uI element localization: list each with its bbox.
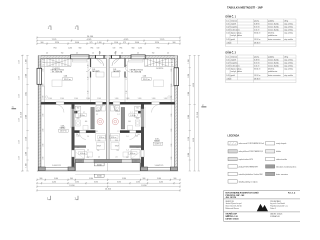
right dim line C bbox=[198, 55, 200, 171]
bottom dim line 1 bbox=[36, 179, 181, 181]
table DŮM Č. 2 grid bbox=[226, 55, 297, 83]
svg-text:750: 750 bbox=[97, 150, 100, 152]
left dim line B bbox=[26, 55, 28, 171]
svg-text:1.500: 1.500 bbox=[115, 98, 119, 100]
dim chain above wall unit2 bbox=[110, 99, 175, 101]
table DŮM Č. 1 grid bbox=[226, 19, 297, 47]
svg-text:1.4: 1.4 bbox=[127, 150, 129, 152]
svg-text:koupelna: koupelna bbox=[231, 62, 238, 64]
svg-text:1.10: 1.10 bbox=[126, 90, 128, 93]
left wall bbox=[38, 56, 41, 171]
svg-text:2.60: 2.60 bbox=[43, 95, 45, 98]
svg-text:1.250: 1.250 bbox=[138, 48, 142, 50]
svg-text:TECH: TECH bbox=[97, 146, 101, 148]
svg-text:podlaha: podlaha bbox=[268, 56, 274, 58]
svg-text:35.61 m²: 35.61 m² bbox=[64, 78, 71, 81]
svg-text:zádveří: zádveří bbox=[231, 23, 237, 25]
bottom info right bbox=[270, 213, 282, 218]
svg-text:6.16 m²: 6.16 m² bbox=[254, 25, 260, 28]
bottom dim line 2 bbox=[36, 182, 181, 184]
svg-text:DŮM Č. 1: DŮM Č. 1 bbox=[226, 16, 237, 19]
svg-text:INVESTOR:: INVESTOR: bbox=[226, 201, 235, 203]
section marker top 2 bbox=[76, 26, 78, 30]
section marker bottom 1 bbox=[49, 196, 51, 200]
svg-text:koupelna: koupelna bbox=[231, 26, 238, 28]
svg-text:O/Z: O/Z bbox=[113, 48, 116, 50]
svg-text:Ulice číslo 123, 250 00: Ulice číslo 123, 250 00 bbox=[226, 206, 242, 208]
svg-text:keram. dlažba: keram. dlažba bbox=[268, 22, 279, 25]
svg-text:17x182/250: 17x182/250 bbox=[156, 68, 163, 70]
svg-text:podlahovina: podlahovina bbox=[268, 35, 277, 37]
svg-text:stěny: stěny bbox=[284, 55, 288, 58]
bath fixtures unit2 bbox=[115, 106, 120, 112]
svg-text:1.10: 1.10 bbox=[88, 76, 90, 79]
svg-text:2.600: 2.600 bbox=[26, 115, 28, 119]
entry arrow unit1 bbox=[99, 51, 100, 54]
svg-text:700: 700 bbox=[76, 134, 79, 136]
svg-text:1.500: 1.500 bbox=[126, 98, 130, 100]
legend R2 bbox=[266, 150, 275, 153]
svg-text:13.97 m²: 13.97 m² bbox=[254, 38, 261, 41]
svg-text:P06: P06 bbox=[98, 140, 101, 142]
svg-text:1.500: 1.500 bbox=[48, 98, 52, 100]
svg-text:900: 900 bbox=[143, 178, 146, 180]
svg-text:4.925: 4.925 bbox=[87, 39, 92, 41]
svg-text:900: 900 bbox=[41, 42, 44, 44]
svg-text:1.500: 1.500 bbox=[60, 98, 64, 100]
svg-text:TECH: TECH bbox=[115, 146, 119, 148]
svg-text:6.48 m²: 6.48 m² bbox=[254, 22, 260, 25]
right dim line B bbox=[193, 55, 195, 171]
legend R1 bbox=[266, 142, 275, 145]
svg-text:750: 750 bbox=[152, 53, 155, 55]
svg-text:1.03: 1.03 bbox=[115, 111, 118, 113]
right wall bbox=[175, 56, 178, 171]
svg-text:900: 900 bbox=[77, 147, 80, 149]
svg-text:O/Z: O/Z bbox=[97, 48, 100, 50]
svg-text:+ KK, JÍDELNA: + KK, JÍDELNA bbox=[51, 71, 63, 74]
window left wall bbox=[37, 68, 42, 84]
svg-text:900: 900 bbox=[174, 178, 177, 180]
svg-text:35.61 m²: 35.61 m² bbox=[254, 31, 261, 34]
interior dim chains unit1 bbox=[43, 59, 45, 103]
svg-text:1.2: 1.2 bbox=[118, 114, 120, 116]
svg-text:750: 750 bbox=[116, 150, 119, 152]
top dim line 2 bbox=[36, 39, 181, 41]
svg-text:1.02: 1.02 bbox=[135, 111, 138, 113]
svg-text:váp. omítka: váp. omítka bbox=[284, 28, 293, 31]
logo bbox=[257, 204, 268, 211]
legend L3 bbox=[228, 157, 237, 160]
svg-text:1.03: 1.03 bbox=[97, 111, 100, 113]
svg-text:750: 750 bbox=[61, 53, 64, 55]
svg-text:technická m.: technická m. bbox=[231, 28, 241, 31]
svg-text:2.025: 2.025 bbox=[26, 92, 28, 96]
svg-text:zdivo příčkové POROTHERM 11,5: zdivo příčkové POROTHERM 11,5 bbox=[239, 151, 264, 153]
stair unit1 bbox=[42, 59, 72, 67]
bath walls unit1 bbox=[91, 107, 95, 129]
svg-text:1.250: 1.250 bbox=[188, 59, 190, 63]
dim chain above wall unit1 bbox=[42, 99, 107, 101]
svg-text:2.1: 2.1 bbox=[118, 131, 120, 133]
svg-text:13.97 m²: 13.97 m² bbox=[60, 130, 67, 133]
bottom dim line 4 bbox=[36, 189, 181, 191]
entry door opening unit1 bbox=[96, 55, 104, 58]
svg-text:4.250: 4.250 bbox=[159, 182, 163, 184]
svg-text:celkem: celkem bbox=[226, 78, 232, 80]
svg-text:3.575: 3.575 bbox=[117, 182, 121, 184]
svg-text:1.250: 1.250 bbox=[19, 140, 21, 144]
svg-text:váp. omítka: váp. omítka bbox=[284, 22, 293, 25]
svg-text:1.10: 1.10 bbox=[88, 90, 90, 93]
svg-text:1.750: 1.750 bbox=[188, 137, 190, 141]
svg-text:1.500: 1.500 bbox=[74, 98, 78, 100]
svg-text:2.5: 2.5 bbox=[43, 65, 45, 67]
closet vestibule unit1 bbox=[96, 72, 104, 77]
svg-text:P07: P07 bbox=[126, 157, 129, 159]
svg-text:5.000: 5.000 bbox=[54, 178, 58, 180]
svg-text:1.100: 1.100 bbox=[97, 42, 101, 44]
svg-text:900: 900 bbox=[79, 48, 82, 50]
svg-text:48.36 m²: 48.36 m² bbox=[254, 77, 261, 80]
bottom info left bbox=[226, 213, 239, 221]
svg-text:beton. mazanina: beton. mazanina bbox=[268, 74, 281, 77]
svg-text:LEGENDA: LEGENDA bbox=[228, 134, 240, 137]
svg-text:1.780: 1.780 bbox=[188, 74, 190, 78]
svg-text:2.5: 2.5 bbox=[137, 53, 139, 55]
svg-text:1.02: 1.02 bbox=[226, 62, 229, 64]
svg-text:1.0: 1.0 bbox=[121, 53, 123, 55]
svg-text:900: 900 bbox=[132, 48, 135, 50]
bath walls unit2 bbox=[121, 107, 125, 129]
svg-text:váp. omítka: váp. omítka bbox=[284, 74, 293, 77]
svg-text:2.60: 2.60 bbox=[171, 113, 173, 116]
svg-text:č.m.: č.m. bbox=[226, 20, 230, 22]
svg-text:plocha: plocha bbox=[254, 20, 259, 22]
svg-text:2.0: 2.0 bbox=[99, 53, 101, 55]
svg-text:4.950: 4.950 bbox=[193, 83, 195, 87]
svg-text:1.03: 1.03 bbox=[226, 29, 229, 31]
center party wall bbox=[106, 56, 109, 164]
svg-text:1.05: 1.05 bbox=[226, 75, 229, 77]
svg-text:kuchyň, jídelna: kuchyň, jídelna bbox=[231, 71, 242, 73]
svg-text:1.01: 1.01 bbox=[226, 23, 229, 25]
svg-text:stěny: stěny bbox=[284, 19, 288, 22]
svg-text:2.575: 2.575 bbox=[75, 182, 79, 184]
svg-text:13.97 m²: 13.97 m² bbox=[154, 143, 161, 146]
svg-text:1.500: 1.500 bbox=[164, 98, 168, 100]
interior dim chains unit2 bbox=[170, 59, 172, 103]
legend L5 bbox=[228, 172, 237, 175]
title block frame bbox=[224, 191, 300, 222]
bottom dim line 3 bbox=[36, 185, 181, 187]
svg-text:1.05: 1.05 bbox=[226, 39, 229, 41]
svg-text:24.100: 24.100 bbox=[105, 189, 111, 191]
boxed dim labels bbox=[94, 163, 104, 166]
legend L6 bbox=[228, 180, 237, 183]
svg-text:beton. mazanina: beton. mazanina bbox=[268, 38, 281, 41]
svg-text:900: 900 bbox=[40, 178, 43, 180]
svg-text:1.04: 1.04 bbox=[226, 68, 229, 70]
svg-text:900: 900 bbox=[70, 178, 73, 180]
bottom wall garage unit1 bbox=[38, 167, 45, 171]
svg-text:1.200: 1.200 bbox=[26, 152, 28, 156]
svg-text:2.60: 2.60 bbox=[171, 128, 173, 131]
svg-text:celkem: celkem bbox=[226, 42, 232, 44]
svg-text:48.36 m²: 48.36 m² bbox=[254, 41, 261, 44]
svg-text:2.60: 2.60 bbox=[43, 113, 45, 116]
svg-text:místnost: místnost bbox=[231, 19, 238, 22]
svg-text:2.575: 2.575 bbox=[136, 182, 140, 184]
svg-text:24.100: 24.100 bbox=[87, 36, 94, 38]
garage side wall unit1 bbox=[72, 105, 75, 167]
corner blocks bbox=[38, 56, 41, 59]
svg-text:váp. omítka: váp. omítka bbox=[284, 25, 293, 28]
entry door opening unit2 bbox=[112, 55, 120, 58]
svg-text:2.600: 2.600 bbox=[188, 115, 190, 119]
entry arrow unit2 bbox=[115, 51, 116, 54]
door swing unit2 bbox=[112, 59, 119, 66]
svg-text:2.0: 2.0 bbox=[98, 157, 100, 159]
svg-text:4.250: 4.250 bbox=[52, 182, 56, 184]
kitchen line unit2 bbox=[171, 86, 175, 102]
svg-text:1.02: 1.02 bbox=[226, 26, 229, 28]
svg-text:dlažba: dlažba bbox=[276, 151, 281, 153]
svg-text:Ing. arch. Jan Novák: Ing. arch. Jan Novák bbox=[270, 203, 285, 205]
svg-text:1.0: 1.0 bbox=[87, 136, 89, 138]
legend R4 bbox=[266, 165, 275, 168]
svg-text:P05: P05 bbox=[77, 118, 80, 120]
svg-text:nosný sloupek: nosný sloupek bbox=[276, 143, 286, 145]
svg-text:1.10: 1.10 bbox=[126, 64, 128, 67]
svg-text:zádveří: zádveří bbox=[231, 59, 237, 61]
wall living/back unit2 bbox=[109, 102, 174, 105]
svg-text:2.60: 2.60 bbox=[43, 68, 45, 71]
svg-text:2.60: 2.60 bbox=[43, 143, 45, 146]
top dim line 1 bbox=[36, 36, 181, 38]
right dim line A bbox=[189, 55, 191, 171]
svg-text:6.48 m²: 6.48 m² bbox=[254, 58, 260, 61]
svg-text:2.60: 2.60 bbox=[171, 95, 173, 98]
svg-text:900: 900 bbox=[173, 42, 176, 44]
legend R5 bbox=[266, 172, 275, 175]
svg-text:4.925: 4.925 bbox=[124, 39, 129, 41]
top wall hatch bbox=[40, 56, 177, 59]
svg-text:DATUM: 10/2021: DATUM: 10/2021 bbox=[226, 218, 239, 221]
svg-text:místnost: místnost bbox=[231, 55, 238, 58]
svg-text:2.0: 2.0 bbox=[46, 53, 48, 55]
svg-text:1.06: 1.06 bbox=[77, 136, 80, 138]
svg-text:podlahovina: podlahovina bbox=[268, 71, 277, 73]
svg-text:13.97 m²: 13.97 m² bbox=[254, 74, 261, 77]
svg-text:R.1.1.b: R.1.1.b bbox=[288, 193, 296, 195]
section marker bottom 2 bbox=[76, 196, 78, 200]
svg-text:váp. omítka: váp. omítka bbox=[284, 61, 293, 64]
svg-text:900: 900 bbox=[136, 147, 139, 149]
svg-text:1.0: 1.0 bbox=[92, 53, 94, 55]
svg-text:2.1: 2.1 bbox=[96, 131, 98, 133]
section marker top 1 bbox=[49, 26, 51, 30]
svg-text:1.03: 1.03 bbox=[226, 65, 229, 67]
svg-text:2.11 m²: 2.11 m² bbox=[254, 64, 260, 67]
svg-text:1.250: 1.250 bbox=[19, 118, 21, 122]
projektant block bbox=[270, 200, 288, 210]
svg-text:váp. omítka: váp. omítka bbox=[284, 31, 293, 34]
svg-text:1.500: 1.500 bbox=[97, 98, 101, 100]
svg-text:7.125: 7.125 bbox=[160, 39, 165, 41]
legend L1 bbox=[228, 142, 237, 145]
svg-text:keram. dlažba: keram. dlažba bbox=[268, 64, 279, 67]
vestibule partition unit1 bbox=[90, 59, 91, 68]
svg-text:1.600: 1.600 bbox=[26, 74, 28, 78]
svg-text:900: 900 bbox=[171, 62, 174, 64]
top wall bbox=[38, 56, 177, 59]
svg-text:2.11 m²: 2.11 m² bbox=[254, 28, 260, 31]
svg-text:2.0: 2.0 bbox=[167, 53, 169, 55]
svg-text:keram. dlažba: keram. dlažba bbox=[268, 58, 279, 61]
svg-text:3.250: 3.250 bbox=[155, 42, 159, 44]
svg-text:5.000/2.125: 5.000/2.125 bbox=[155, 165, 164, 167]
room area boxes unit1 bbox=[78, 114, 86, 117]
svg-text:P01: P01 bbox=[91, 48, 94, 50]
svg-text:1.100: 1.100 bbox=[26, 163, 28, 167]
svg-text:1.500: 1.500 bbox=[152, 98, 156, 100]
svg-text:překlad POROTHERM KP7: překlad POROTHERM KP7 bbox=[239, 166, 259, 168]
middle south wall recessed bbox=[75, 159, 140, 162]
vestibule partition unit2 bbox=[124, 59, 125, 68]
svg-text:JUL 19/178: JUL 19/178 bbox=[226, 197, 237, 199]
svg-text:6.16 m²: 6.16 m² bbox=[254, 61, 260, 64]
svg-text:5.000/2.125: 5.000/2.125 bbox=[52, 165, 61, 167]
svg-text:zdivo nosné POROTHERM 30 Profi: zdivo nosné POROTHERM 30 Profi bbox=[239, 143, 265, 145]
svg-text:váp. omítka: váp. omítka bbox=[284, 58, 293, 61]
svg-text:5.300: 5.300 bbox=[89, 178, 93, 180]
svg-text:3.000: 3.000 bbox=[75, 42, 79, 44]
svg-text:1.900: 1.900 bbox=[188, 92, 190, 96]
svg-text:2.0: 2.0 bbox=[116, 157, 118, 159]
legend L2 bbox=[228, 150, 237, 153]
room area boxes unit2 bbox=[129, 114, 137, 117]
svg-text:váp. omítka: váp. omítka bbox=[284, 64, 293, 67]
svg-text:1.0: 1.0 bbox=[127, 136, 129, 138]
kitchen counter unit1 bbox=[73, 59, 88, 62]
svg-text:ZÁDVEŘÍ: ZÁDVEŘÍ bbox=[113, 70, 121, 73]
svg-text:keram. dlažba: keram. dlažba bbox=[268, 25, 279, 28]
svg-text:700: 700 bbox=[137, 134, 140, 136]
svg-text:1.300: 1.300 bbox=[26, 59, 28, 63]
svg-text:keram. dlažba: keram. dlažba bbox=[268, 28, 279, 31]
svg-text:garáž: garáž bbox=[231, 74, 235, 77]
svg-text:1.250: 1.250 bbox=[19, 94, 21, 98]
svg-text:1.500: 1.500 bbox=[86, 98, 90, 100]
svg-text:váp. omítka: váp. omítka bbox=[284, 67, 293, 70]
kitchen counter unit2 bbox=[129, 59, 144, 62]
svg-text:2.60: 2.60 bbox=[43, 128, 45, 131]
svg-text:35.61 m²: 35.61 m² bbox=[143, 78, 150, 81]
svg-text:600: 600 bbox=[85, 121, 88, 123]
stair unit2 bbox=[145, 59, 175, 67]
kitchen line unit1 bbox=[41, 86, 45, 102]
svg-text:skladba podlahy viz výkres: skladba podlahy viz výkres bbox=[239, 181, 258, 183]
bottom wall garage unit2 bbox=[140, 167, 147, 171]
svg-text:1.750: 1.750 bbox=[26, 137, 28, 141]
svg-text:Jméno Příjmení a spol.: Jméno Příjmení a spol. bbox=[226, 203, 243, 205]
svg-text:č.m.: č.m. bbox=[226, 56, 230, 58]
svg-text:plocha: plocha bbox=[254, 56, 259, 58]
svg-text:12.150: 12.150 bbox=[21, 112, 23, 118]
svg-text:1.01: 1.01 bbox=[226, 59, 229, 61]
svg-text:3.000: 3.000 bbox=[135, 42, 139, 44]
door swing unit1 bbox=[96, 59, 103, 66]
svg-text:P04: P04 bbox=[54, 48, 57, 50]
legend R3 bbox=[266, 157, 275, 160]
legend L4 bbox=[228, 165, 237, 168]
svg-text:2.60: 2.60 bbox=[43, 156, 45, 159]
window top wall unit1 bbox=[71, 55, 90, 59]
svg-text:1.100: 1.100 bbox=[114, 42, 118, 44]
svg-text:+ KK, JÍDELNA: + KK, JÍDELNA bbox=[130, 71, 142, 74]
window top wall unit2 bbox=[131, 55, 145, 59]
dining table unit1 bbox=[52, 80, 62, 87]
svg-text:5.000: 5.000 bbox=[157, 178, 161, 180]
investor block bbox=[226, 201, 243, 210]
svg-text:2.300: 2.300 bbox=[188, 153, 190, 157]
svg-text:keram. dlažba: keram. dlažba bbox=[268, 61, 279, 64]
svg-text:900: 900 bbox=[42, 62, 45, 64]
svg-text:technická m.: technická m. bbox=[231, 64, 241, 67]
closet vestibule unit2 bbox=[112, 72, 120, 77]
svg-text:5.300: 5.300 bbox=[122, 178, 126, 180]
svg-text:2.60: 2.60 bbox=[171, 156, 173, 159]
svg-text:600: 600 bbox=[128, 121, 131, 123]
svg-text:2.5: 2.5 bbox=[171, 65, 173, 67]
washer unit2 (red) bbox=[112, 119, 118, 125]
ground line bbox=[37, 170, 178, 172]
svg-text:12.050: 12.050 bbox=[141, 185, 146, 187]
svg-text:1.04: 1.04 bbox=[226, 32, 229, 34]
title block headings bbox=[226, 192, 260, 200]
svg-text:975: 975 bbox=[90, 42, 93, 44]
washer unit1 (red) bbox=[97, 119, 103, 125]
svg-text:1.250: 1.250 bbox=[68, 48, 72, 50]
svg-text:P04: P04 bbox=[157, 48, 160, 50]
svg-text:6.650: 6.650 bbox=[193, 138, 195, 142]
svg-text:1.06: 1.06 bbox=[135, 136, 138, 138]
svg-text:P01: P01 bbox=[120, 48, 123, 50]
svg-text:1.250: 1.250 bbox=[19, 156, 21, 160]
svg-text:P07: P07 bbox=[87, 157, 90, 159]
svg-text:1.4: 1.4 bbox=[87, 150, 89, 152]
svg-text:Praha 5: Praha 5 bbox=[270, 208, 276, 210]
svg-text:1.250: 1.250 bbox=[19, 60, 21, 64]
svg-text:3.250: 3.250 bbox=[55, 42, 59, 44]
svg-text:1.10: 1.10 bbox=[126, 76, 128, 79]
svg-text:P04: P04 bbox=[42, 60, 45, 62]
dining table unit2 bbox=[154, 80, 164, 87]
svg-text:ZÁDVEŘÍ: ZÁDVEŘÍ bbox=[92, 70, 100, 73]
svg-text:2.5: 2.5 bbox=[76, 53, 78, 55]
svg-text:2.60: 2.60 bbox=[171, 68, 173, 71]
svg-text:1.250: 1.250 bbox=[19, 76, 21, 80]
svg-text:DŮM Č. 2: DŮM Č. 2 bbox=[226, 52, 237, 55]
svg-text:12.050: 12.050 bbox=[69, 185, 74, 187]
svg-text:900: 900 bbox=[77, 108, 80, 110]
top dim line 3 bbox=[36, 42, 181, 44]
svg-text:5.160: 5.160 bbox=[97, 164, 102, 166]
svg-text:35.61 m²: 35.61 m² bbox=[254, 67, 261, 70]
svg-text:kuchyň, jídelna: kuchyň, jídelna bbox=[231, 35, 242, 37]
svg-text:garáž: garáž bbox=[231, 38, 235, 41]
